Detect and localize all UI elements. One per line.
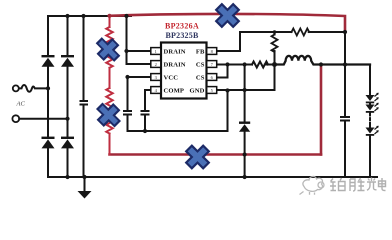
svg-text:FB: FB xyxy=(196,48,205,55)
svg-text:BP2326A: BP2326A xyxy=(165,22,199,31)
svg-text:DRAIN: DRAIN xyxy=(164,48,186,55)
svg-text:BP2325B: BP2325B xyxy=(166,31,199,40)
svg-text:CS: CS xyxy=(196,74,205,81)
svg-text:DRAIN: DRAIN xyxy=(164,61,186,68)
svg-text:VCC: VCC xyxy=(164,74,179,81)
svg-text:1: 1 xyxy=(155,49,157,54)
svg-text:COMP: COMP xyxy=(164,87,185,94)
svg-text:AC: AC xyxy=(16,101,26,108)
svg-text:CS: CS xyxy=(196,61,205,68)
svg-text:GND: GND xyxy=(190,87,205,94)
svg-text:2: 2 xyxy=(155,62,157,67)
